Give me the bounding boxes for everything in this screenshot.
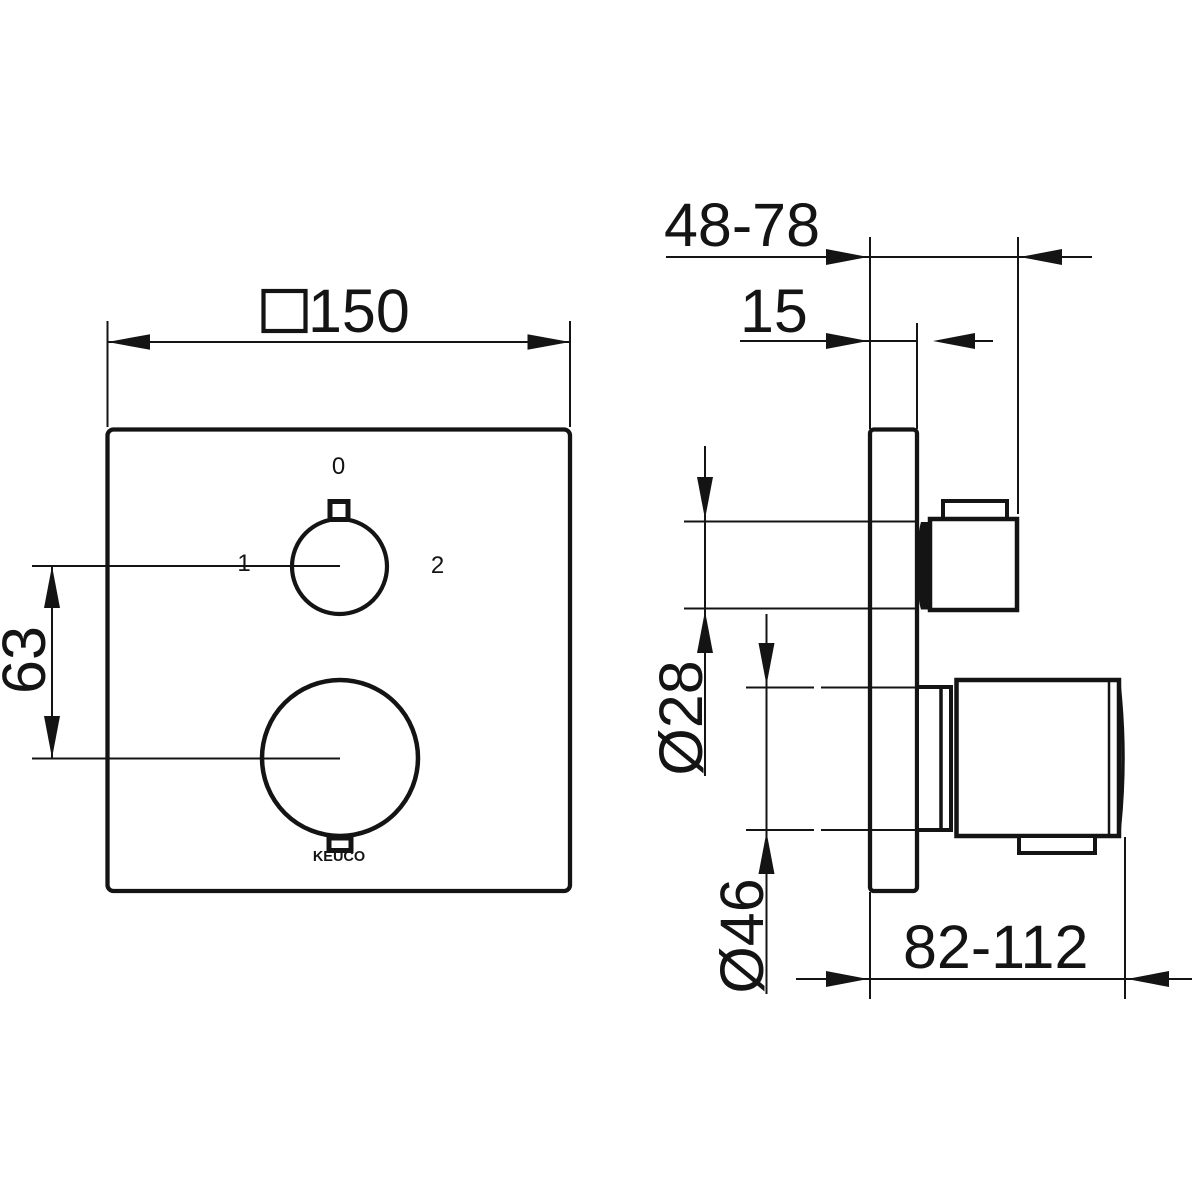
svg-text:63: 63 [0, 626, 58, 694]
svg-text:0: 0 [332, 453, 345, 480]
svg-text:Ø46: Ø46 [708, 878, 776, 993]
svg-text:150: 150 [308, 277, 410, 345]
svg-text:2: 2 [431, 552, 444, 579]
svg-text:1: 1 [237, 550, 250, 577]
svg-text:48-78: 48-78 [664, 191, 820, 259]
svg-text:15: 15 [740, 277, 808, 345]
svg-text:KEUCO: KEUCO [313, 849, 365, 865]
svg-text:82-112: 82-112 [903, 913, 1088, 981]
svg-text:Ø28: Ø28 [647, 660, 715, 775]
